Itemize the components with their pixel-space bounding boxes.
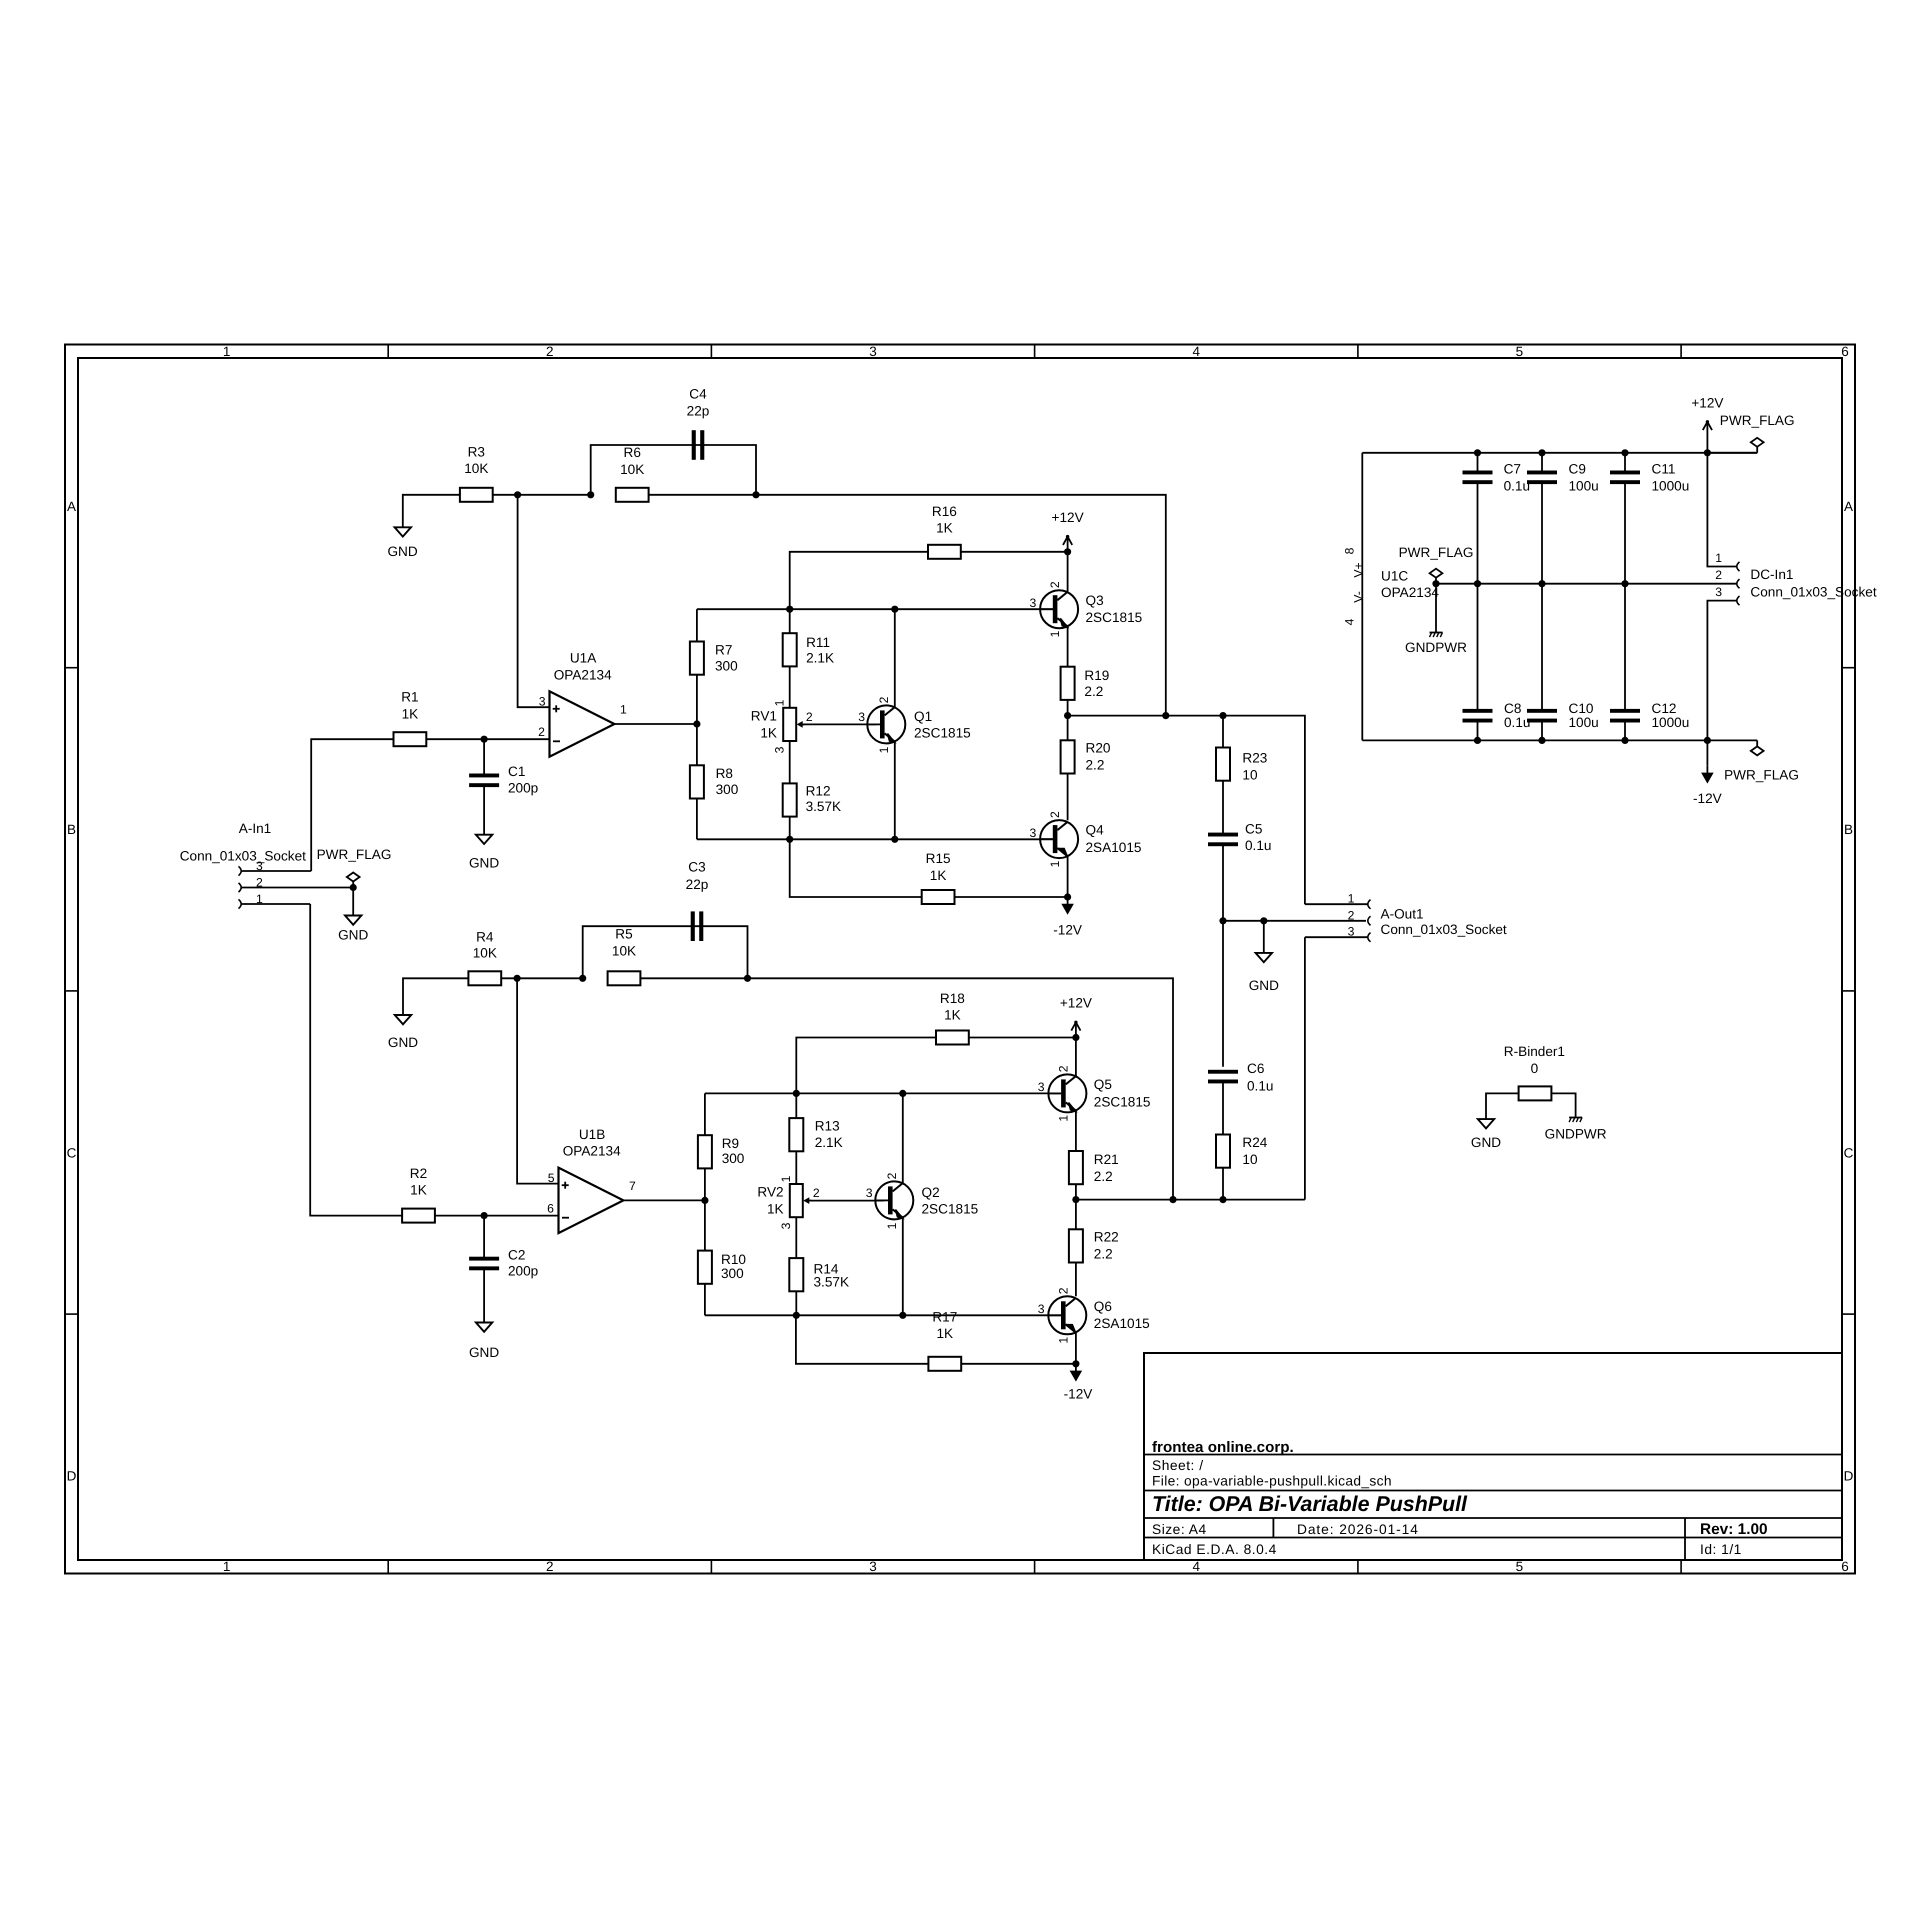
svg-text:2: 2 (1056, 1065, 1070, 1072)
wire R2 to U1B inverting input (435, 1215, 559, 1217)
svg-text:Conn_01x03_Socket: Conn_01x03_Socket (1381, 922, 1507, 937)
svg-text:C8: C8 (1504, 701, 1521, 716)
svg-text:2.2: 2.2 (1086, 758, 1105, 773)
svg-text:C: C (67, 1145, 77, 1160)
svg-text:2: 2 (546, 344, 554, 359)
svg-text:C2: C2 (508, 1247, 525, 1262)
wire A-Out pin3 down to output rail B (1304, 937, 1306, 1199)
wire R18 right to +12V node B (969, 1037, 1076, 1039)
svg-text:1: 1 (223, 344, 231, 359)
svg-text:OPA2134: OPA2134 (554, 667, 612, 682)
svg-text:4: 4 (1343, 618, 1357, 625)
wire R18 left to upper rail B (796, 1038, 936, 1094)
sheet frame inner border (78, 358, 1842, 1560)
svg-text:10K: 10K (612, 943, 636, 958)
transistor Q3 (1040, 590, 1078, 628)
svg-text:3: 3 (1030, 596, 1037, 610)
wire R4 right to junction (501, 977, 583, 979)
svg-text:8: 8 (1343, 547, 1357, 554)
svg-text:300: 300 (721, 1266, 744, 1281)
svg-text:0.1u: 0.1u (1504, 478, 1530, 493)
capacitor C4 (692, 430, 696, 460)
junction feedback left (587, 491, 594, 498)
svg-text:Sheet: /: Sheet: / (1152, 1458, 1204, 1473)
resistor R20 (1061, 740, 1075, 773)
svg-text:1: 1 (885, 1222, 899, 1229)
svg-text:5: 5 (548, 1171, 555, 1185)
svg-text:Rev: 1.00: Rev: 1.00 (1700, 1521, 1768, 1538)
svg-text:R16: R16 (932, 504, 957, 519)
svg-text:4: 4 (1192, 344, 1200, 359)
svg-text:6: 6 (1841, 344, 1849, 359)
svg-text:R5: R5 (615, 927, 632, 942)
svg-text:Q4: Q4 (1086, 823, 1105, 838)
svg-text:2: 2 (813, 1186, 820, 1200)
svg-text:5: 5 (1516, 1559, 1524, 1574)
wire R16 right to +12V node (961, 551, 1068, 553)
ground below C2 (476, 1323, 492, 1332)
svg-text:200p: 200p (508, 780, 538, 795)
resistor R22 (1069, 1229, 1083, 1262)
svg-text:10: 10 (1242, 768, 1258, 783)
wire GND rail down to C6 (1222, 921, 1224, 1067)
svg-text:0.1u: 0.1u (1504, 715, 1530, 730)
junctions top rail (1474, 449, 1481, 456)
svg-text:D: D (1844, 1469, 1854, 1484)
ground below C1 (476, 835, 492, 844)
svg-text:OPA2134: OPA2134 (1381, 585, 1439, 600)
svg-text:6: 6 (547, 1201, 554, 1215)
junction feedback right (752, 491, 759, 498)
wire R23 top (1222, 716, 1224, 748)
output rail channel A (1068, 716, 1305, 905)
svg-text:GNDPWR: GNDPWR (1405, 640, 1467, 655)
op-amp U1B (559, 1168, 624, 1233)
svg-text:2: 2 (1715, 568, 1722, 582)
title block box (1144, 1353, 1842, 1560)
wire Q4 emitter down to R15 node (1067, 856, 1069, 897)
lower bias rail channel B (705, 1314, 1061, 1316)
svg-text:3: 3 (858, 710, 865, 724)
svg-text:U1B: U1B (579, 1127, 605, 1142)
junction upper rail B Q2 collector (899, 1090, 906, 1097)
svg-text:R20: R20 (1086, 741, 1111, 756)
junction C2 top (481, 1212, 488, 1219)
svg-text:0.1u: 0.1u (1247, 1078, 1273, 1093)
svg-text:3.57K: 3.57K (814, 1274, 850, 1289)
svg-text:1K: 1K (410, 1183, 427, 1198)
svg-text:C1: C1 (508, 764, 525, 779)
transistor Q2 (875, 1181, 913, 1219)
junction lower rail B R14 (793, 1312, 800, 1319)
svg-text:2: 2 (1048, 811, 1062, 818)
svg-text:PWR_FLAG: PWR_FLAG (1399, 545, 1474, 560)
svg-text:2.2: 2.2 (1094, 1247, 1113, 1262)
junction R24 column B (1219, 1196, 1226, 1203)
svg-text:Q2: Q2 (922, 1185, 940, 1200)
junction U1B output (701, 1197, 708, 1204)
svg-text:2SC1815: 2SC1815 (922, 1202, 979, 1217)
svg-text:PWR_FLAG: PWR_FLAG (317, 847, 392, 862)
svg-text:2SC1815: 2SC1815 (1086, 610, 1143, 625)
svg-text:V+: V+ (1352, 562, 1366, 577)
svg-text:A: A (1844, 499, 1853, 514)
svg-text:R8: R8 (716, 766, 733, 781)
svg-text:GND: GND (338, 928, 368, 943)
wire C2 bottom to ground (483, 1269, 485, 1323)
svg-text:2.1K: 2.1K (815, 1135, 843, 1150)
svg-text:GND: GND (388, 1035, 418, 1050)
feedback wire B to output column (640, 978, 1173, 1199)
-12V power symbol channel B (1075, 1364, 1077, 1372)
svg-text:R9: R9 (722, 1136, 739, 1151)
GNDPWR at R-Binder1 (1569, 1117, 1582, 1119)
svg-text:1K: 1K (936, 520, 953, 535)
svg-text:3.57K: 3.57K (806, 799, 842, 814)
svg-text:KiCad E.D.A. 8.0.4: KiCad E.D.A. 8.0.4 (1152, 1542, 1277, 1557)
svg-text:R2: R2 (410, 1166, 427, 1181)
op-amp U1A (550, 691, 615, 756)
svg-text:R15: R15 (926, 851, 951, 866)
junction +12V node A (1064, 548, 1071, 555)
connector A-Out1 pins (1368, 900, 1371, 909)
svg-text:-12V: -12V (1064, 1386, 1093, 1401)
wire R24 bottom to output rail B (1222, 1168, 1224, 1200)
svg-text:R22: R22 (1094, 1230, 1119, 1245)
upper bias rail channel B (705, 1092, 1061, 1094)
junction U1A output (693, 720, 700, 727)
resistor R9 (698, 1135, 712, 1168)
svg-text:2SA1015: 2SA1015 (1086, 840, 1142, 855)
resistor R2 (402, 1209, 435, 1223)
resistor R17 (928, 1357, 961, 1371)
resistor R6 (616, 488, 649, 502)
svg-text:C3: C3 (688, 859, 705, 874)
wire Q3 collector up (1067, 552, 1069, 592)
svg-text:300: 300 (715, 658, 738, 673)
svg-text:GND: GND (1471, 1135, 1501, 1150)
svg-text:frontea online.corp.: frontea online.corp. (1152, 1439, 1294, 1456)
wire PWR_FLAG to GNDPWR (1435, 584, 1437, 633)
junction GND stub (1260, 917, 1267, 924)
ground at A-Out (1256, 953, 1272, 962)
-12V power symbol channel A (1067, 897, 1069, 905)
wire Q5 collector up (1075, 1038, 1077, 1077)
svg-text:DC-In1: DC-In1 (1750, 567, 1793, 582)
svg-text:R24: R24 (1242, 1135, 1267, 1150)
wire R-Binder1 left to GND (1486, 1093, 1519, 1119)
svg-text:10K: 10K (464, 461, 488, 476)
svg-text:R21: R21 (1094, 1152, 1119, 1167)
svg-text:PWR_FLAG: PWR_FLAG (1720, 413, 1795, 428)
wire R14 bottom (795, 1291, 797, 1315)
svg-text:2SC1815: 2SC1815 (1094, 1094, 1151, 1109)
svg-text:3: 3 (773, 746, 787, 753)
svg-text:1: 1 (256, 892, 263, 906)
svg-text:0.1u: 0.1u (1245, 838, 1271, 853)
wire RV2 wiper to Q2 base (805, 1200, 884, 1202)
+12V power symbol channel B (1075, 1022, 1077, 1037)
svg-text:R6: R6 (624, 445, 641, 460)
svg-text:1K: 1K (944, 1008, 961, 1023)
potentiometer RV2 (790, 1184, 803, 1217)
svg-text:100u: 100u (1569, 715, 1599, 730)
wire U1B output to R9/R10 node (623, 1199, 705, 1201)
connector A-In1 pins (239, 866, 242, 875)
svg-text:1: 1 (779, 1175, 793, 1182)
junction output node A (1064, 712, 1071, 719)
wire Q5 emitter to R21 (1075, 1111, 1077, 1151)
wire R16 left to upper rail (790, 552, 928, 609)
wire R22 leads (1075, 1200, 1077, 1230)
wire Q1 collector to upper rail (894, 609, 896, 707)
wire DC-In pin1 to +12V rail (1707, 453, 1736, 567)
resistor R23 (1216, 748, 1230, 781)
power flag top right (1707, 452, 1757, 454)
svg-text:1: 1 (1048, 860, 1062, 867)
capacitor C6 (1208, 1070, 1238, 1074)
resistor R7 (690, 642, 704, 675)
junction feedback column B (1169, 1196, 1176, 1203)
junction upper rail B R13 (793, 1090, 800, 1097)
wire C1 bottom to ground (483, 785, 485, 834)
connector DC-In1 pins (1737, 562, 1740, 571)
junction C1 top (481, 736, 488, 743)
wire U1A output to R7/R8 node (614, 723, 697, 725)
svg-text:GND: GND (469, 1345, 499, 1360)
frame column/row ticks (387, 345, 389, 359)
svg-text:OPA2134: OPA2134 (563, 1144, 621, 1159)
lower bias rail channel A (697, 838, 1053, 840)
power bottom rail (-12V) (1362, 739, 1757, 741)
svg-text:3: 3 (1038, 1080, 1045, 1094)
resistor R24 (1216, 1135, 1230, 1168)
svg-text:C6: C6 (1247, 1061, 1264, 1076)
title block column dividers (1272, 1518, 1274, 1538)
resistor R14 (789, 1258, 803, 1291)
svg-text:A-In1: A-In1 (239, 821, 272, 836)
wire C2 top (483, 1216, 485, 1259)
wire R12 bottom (789, 817, 791, 840)
svg-text:Conn_01x03_Socket: Conn_01x03_Socket (180, 849, 306, 864)
transistor Q1 (867, 705, 905, 743)
svg-text:R4: R4 (476, 930, 494, 945)
resistor R16 (928, 545, 961, 559)
junction upper rail R11 (786, 606, 793, 613)
svg-text:Title: OPA Bi-Variable PushPul: Title: OPA Bi-Variable PushPull (1152, 1492, 1468, 1516)
svg-text:10K: 10K (620, 462, 644, 477)
svg-text:2: 2 (538, 725, 545, 739)
capacitor C7 (1463, 471, 1493, 475)
svg-text:U1A: U1A (570, 651, 597, 666)
wire R15 left to lower rail (790, 839, 922, 897)
svg-text:3: 3 (866, 1186, 873, 1200)
junction -12V node A (1064, 893, 1071, 900)
svg-text:V-: V- (1352, 591, 1366, 603)
svg-text:+12V: +12V (1060, 996, 1092, 1011)
svg-text:1: 1 (1056, 1115, 1070, 1122)
junction feedback column (1162, 712, 1169, 719)
wire junction down to U1A + input (518, 495, 550, 707)
sheet frame outer border (65, 345, 1855, 1574)
wire R17 left to lower rail B (796, 1315, 929, 1364)
svg-text:4: 4 (1192, 1559, 1200, 1574)
svg-text:GND: GND (387, 544, 417, 559)
svg-text:R12: R12 (806, 783, 831, 798)
svg-text:File: opa-variable-pushpull.ki: File: opa-variable-pushpull.kicad_sch (1152, 1474, 1392, 1489)
ground below R4 (395, 1015, 411, 1024)
svg-text:+12V: +12V (1691, 396, 1723, 411)
svg-text:C7: C7 (1504, 462, 1521, 477)
resistor R11 (783, 633, 797, 666)
svg-text:1: 1 (620, 703, 627, 717)
svg-text:3: 3 (869, 1559, 877, 1574)
svg-text:-12V: -12V (1053, 923, 1082, 938)
svg-text:Date: 2026-01-14: Date: 2026-01-14 (1297, 1522, 1419, 1537)
svg-text:200p: 200p (508, 1264, 538, 1279)
svg-text:-12V: -12V (1693, 791, 1722, 806)
svg-text:2SA1015: 2SA1015 (1094, 1316, 1150, 1331)
svg-text:1: 1 (877, 746, 891, 753)
resistor R21 (1069, 1151, 1083, 1184)
wire R15 right (955, 896, 1068, 898)
svg-text:Size: A4: Size: A4 (1152, 1522, 1207, 1537)
-12V power symbol at DC input (1706, 740, 1708, 765)
resistor R-Binder1 (1519, 1086, 1552, 1100)
svg-text:R23: R23 (1242, 751, 1267, 766)
svg-text:D: D (67, 1469, 77, 1484)
svg-text:R17: R17 (932, 1310, 957, 1325)
junction A-In pin2 (350, 884, 357, 891)
svg-text:Q6: Q6 (1094, 1299, 1112, 1314)
svg-text:C11: C11 (1652, 462, 1676, 477)
svg-text:1K: 1K (936, 1326, 953, 1341)
svg-text:R10: R10 (721, 1252, 746, 1267)
svg-text:3: 3 (539, 694, 546, 708)
svg-text:10: 10 (1242, 1152, 1258, 1167)
resistor R10 (698, 1251, 712, 1284)
wire R17 right (961, 1363, 1076, 1365)
svg-text:U1C: U1C (1381, 568, 1408, 583)
wire A-In pin3 to R1 (311, 739, 393, 871)
capacitor C1 (469, 774, 499, 778)
capacitor C11 (1610, 471, 1640, 475)
svg-text:RV2: RV2 (757, 1185, 783, 1200)
wire pin2 to ground (352, 888, 354, 916)
power flag at A-In pin2 (352, 882, 354, 888)
power flag mid rail (1435, 578, 1437, 584)
svg-text:R19: R19 (1084, 668, 1109, 683)
upper bias rail channel A (697, 608, 1053, 610)
wire R11 leads (789, 609, 791, 633)
svg-text:1: 1 (223, 1559, 231, 1574)
svg-text:R13: R13 (815, 1119, 840, 1134)
junction upper rail Q1 collector (891, 606, 898, 613)
svg-text:7: 7 (629, 1179, 636, 1193)
ground at R-Binder1 (1478, 1119, 1494, 1128)
svg-text:R1: R1 (401, 690, 418, 705)
svg-text:1K: 1K (767, 1202, 784, 1217)
svg-text:10K: 10K (473, 946, 497, 961)
svg-text:22p: 22p (686, 877, 709, 892)
svg-text:R-Binder1: R-Binder1 (1504, 1044, 1565, 1059)
junction R3/R6/+input node (514, 491, 521, 498)
transistor Q4 (PNP) (1040, 820, 1078, 858)
wire A-In pin1 down to R2 (310, 904, 402, 1216)
wire C5 bottom to GND rail (1222, 844, 1224, 920)
transistor Q5 (1048, 1074, 1086, 1112)
svg-text:3: 3 (1038, 1302, 1045, 1316)
wire R8 leads (696, 724, 698, 765)
output rail channel B (1076, 1199, 1305, 1201)
svg-text:+12V: +12V (1052, 510, 1084, 525)
capacitor C2 (469, 1257, 499, 1261)
junctions mid rail (1432, 580, 1439, 587)
svg-text:GNDPWR: GNDPWR (1545, 1126, 1607, 1141)
junction +12V node B (1072, 1034, 1079, 1041)
svg-text:2: 2 (256, 875, 263, 889)
svg-text:B: B (1844, 822, 1853, 837)
wire R19 bottom to output node (1067, 700, 1069, 716)
svg-text:100u: 100u (1569, 478, 1599, 493)
svg-text:2.2: 2.2 (1094, 1169, 1113, 1184)
transistor Q6 (PNP) (1048, 1296, 1086, 1334)
title block row lines (1144, 1454, 1842, 1456)
capacitor C5 (1208, 833, 1238, 837)
svg-text:A: A (67, 499, 76, 514)
svg-text:300: 300 (716, 782, 739, 797)
wire Q2 collector to upper rail B (902, 1093, 904, 1183)
svg-text:2: 2 (1048, 581, 1062, 588)
svg-text:B: B (67, 822, 76, 837)
svg-text:1K: 1K (402, 706, 419, 721)
svg-text:R7: R7 (715, 643, 732, 658)
wire R3 left to ground stub (403, 495, 460, 528)
capacitor C9 (1527, 471, 1557, 475)
wire Q1 emitter to lower rail (894, 742, 896, 840)
svg-text:Q3: Q3 (1086, 593, 1104, 608)
svg-text:2: 2 (806, 710, 813, 724)
junction lower rail B Q2 emitter (899, 1312, 906, 1319)
svg-text:C9: C9 (1569, 462, 1586, 477)
svg-text:R11: R11 (806, 635, 830, 650)
svg-text:Id: 1/1: Id: 1/1 (1700, 1542, 1742, 1557)
resistor R15 (922, 890, 955, 904)
svg-text:3: 3 (1030, 826, 1037, 840)
junction lower rail Q1 emitter (891, 836, 898, 843)
wire GND stub down (1263, 921, 1265, 953)
svg-text:0: 0 (1531, 1061, 1539, 1076)
svg-text:1: 1 (773, 699, 787, 706)
wire RV1 bottom to R12 (789, 741, 791, 783)
capacitor C12 (1610, 709, 1640, 713)
wire R23 to C5 (1222, 781, 1224, 835)
wire R10 leads (704, 1200, 706, 1250)
feedback loop wire with C4 (591, 445, 756, 495)
svg-text:2SC1815: 2SC1815 (914, 726, 971, 741)
svg-text:2: 2 (885, 1172, 899, 1179)
resistor R5 (608, 971, 641, 985)
svg-text:22p: 22p (687, 404, 710, 419)
junctions bottom rail (1474, 737, 1481, 744)
potentiometer RV1 (783, 708, 796, 741)
resistor R8 (690, 765, 704, 798)
svg-text:2.1K: 2.1K (806, 651, 834, 666)
junction R23 column (1219, 712, 1226, 719)
wire R13 leads (795, 1093, 797, 1118)
svg-text:3: 3 (869, 344, 877, 359)
wire R3 right to junction (493, 494, 591, 496)
